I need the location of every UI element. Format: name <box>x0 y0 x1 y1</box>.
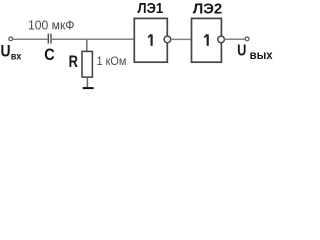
svg-text:U: U <box>237 42 246 60</box>
wire: LE2 to output terminal <box>225 38 245 40</box>
svg-text:вых: вых <box>250 48 273 62</box>
LE2 function label 1 <box>204 34 208 46</box>
wire: capacitor to LE1 input <box>52 38 134 40</box>
svg-text:1 кОм: 1 кОм <box>97 54 127 68</box>
node Uвых label <box>237 42 273 62</box>
capacitor C plates <box>47 34 49 44</box>
LE1 output inversion bubble <box>164 36 171 43</box>
node Uвх label <box>1 42 22 62</box>
input terminal circle <box>9 37 13 41</box>
svg-text:100 мкФ: 100 мкФ <box>28 18 75 33</box>
logic element LE1 box <box>134 18 167 62</box>
wire: terminal to capacitor <box>13 38 48 40</box>
LE1 function label 1 <box>148 34 152 46</box>
LE2 output inversion bubble <box>218 36 225 43</box>
svg-text:вх: вх <box>11 51 22 63</box>
ground <box>83 87 94 89</box>
wire: junction down to resistor <box>86 39 88 51</box>
output terminal circle <box>245 37 249 41</box>
logic element LE2 box <box>192 18 222 62</box>
svg-text:C: C <box>44 46 54 64</box>
resistor R body <box>82 51 92 77</box>
svg-text:ЛЭ2: ЛЭ2 <box>193 1 223 18</box>
wire: LE1 to LE2 <box>171 38 191 40</box>
wire: resistor to ground <box>86 77 88 87</box>
svg-text:U: U <box>1 42 11 61</box>
svg-text:R: R <box>69 52 78 71</box>
svg-text:ЛЭ1: ЛЭ1 <box>137 0 163 17</box>
